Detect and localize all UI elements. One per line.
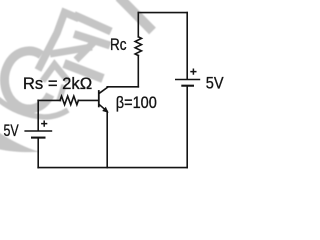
svg-text:5V: 5V xyxy=(206,74,224,92)
battery V2 plus sign xyxy=(190,69,196,75)
svg-text:β=100: β=100 xyxy=(116,94,157,112)
watermark orbit arc 2 (tapered band) xyxy=(0,133,40,153)
watermark sliver xyxy=(59,85,64,101)
wire: left side lower (bottom rail to battery -) xyxy=(37,138,39,168)
transistor Q1 xyxy=(99,87,109,168)
wire: top rail xyxy=(138,12,187,14)
battery V1 short plate xyxy=(31,137,46,139)
watermark letter E arm 1 xyxy=(74,15,111,32)
battery V2 long plate xyxy=(175,79,200,81)
wire: right side lower (battery - to bottom rail) xyxy=(186,86,188,168)
wire: right side upper (to battery +) xyxy=(186,13,188,79)
transistor base bar xyxy=(98,91,100,106)
battery V1 long plate xyxy=(24,130,52,132)
wire: emitter down xyxy=(106,111,108,167)
watermark letter E arm 2 xyxy=(74,34,110,46)
wire: Rc to top rail xyxy=(137,13,139,37)
watermark letter A legs xyxy=(38,13,79,71)
battery V1 plus sign xyxy=(41,121,47,127)
watermark logo (light gray) xyxy=(0,0,153,152)
emitter arrowhead xyxy=(102,107,108,113)
transistor emitter diagonal xyxy=(99,105,107,112)
wire: collector horizontal xyxy=(107,86,138,88)
watermark orbit arc 1 xyxy=(0,99,68,117)
svg-text:5V: 5V xyxy=(4,122,19,140)
svg-text:Rc: Rc xyxy=(110,36,127,54)
battery V2 (right 5V) xyxy=(175,69,200,86)
wire: left side upper (battery + up to corner) xyxy=(37,100,39,130)
transistor collector diagonal xyxy=(99,87,108,93)
watermark crossbar band xyxy=(64,64,103,79)
watermark letter A bar xyxy=(50,47,92,54)
watermark chevron xyxy=(43,65,69,82)
battery V2 short plate xyxy=(181,85,194,87)
wire: base run (corner to Rs) xyxy=(38,99,60,101)
watermark letter G ring xyxy=(4,51,50,109)
wire: collector riser xyxy=(137,56,139,87)
watermark letter E spine xyxy=(76,42,94,60)
wire: Rs to base xyxy=(78,99,98,101)
svg-text:Rs = 2kΩ: Rs = 2kΩ xyxy=(23,75,92,93)
resistor Rc (zigzag vertical) xyxy=(135,37,141,56)
resistor Rs (zigzag) xyxy=(60,96,78,105)
watermark band top-right xyxy=(119,0,153,31)
wire: bottom rail xyxy=(38,167,187,169)
battery V1 (left 5V) xyxy=(24,121,52,138)
